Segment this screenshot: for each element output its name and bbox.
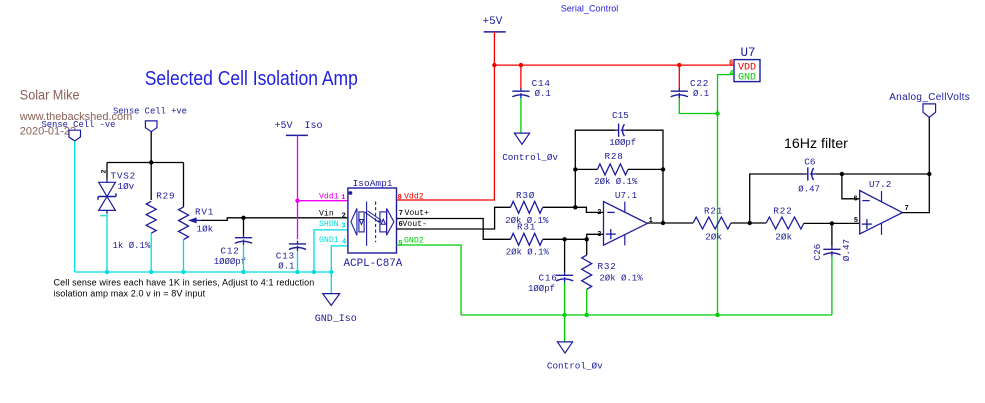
resistor R22 bbox=[766, 206, 804, 243]
svg-text:Ø.1: Ø.1 bbox=[693, 89, 709, 99]
svg-text:7: 7 bbox=[399, 210, 403, 218]
node junction C16 bbox=[562, 237, 566, 241]
svg-text:C14: C14 bbox=[532, 78, 551, 89]
node junction C6/pin6 bbox=[840, 172, 844, 176]
pin label Vdd2 bbox=[398, 192, 424, 203]
svg-text:3: 3 bbox=[341, 222, 345, 230]
port Analog_CellVolts bbox=[889, 92, 970, 117]
wire C12 stub bbox=[243, 218, 245, 235]
wire C26 bottom bbox=[831, 257, 833, 316]
wire C6 left bbox=[750, 174, 805, 223]
resistor R30 bbox=[505, 190, 549, 226]
svg-text:1ØØpf: 1ØØpf bbox=[609, 138, 636, 148]
wire Vout- to R30 bbox=[397, 207, 511, 229]
wire C12 bottom bbox=[243, 245, 245, 272]
svg-text:Ø.1: Ø.1 bbox=[278, 261, 294, 271]
svg-text:C12: C12 bbox=[221, 246, 240, 257]
node junction C12/Vin bbox=[241, 216, 245, 220]
svg-text:4: 4 bbox=[729, 70, 733, 78]
wire R21-R22 bbox=[731, 222, 766, 224]
wire R29 stub bbox=[150, 163, 152, 201]
wire RV1 bottom bbox=[183, 240, 185, 273]
pin label Vout- bbox=[399, 220, 427, 229]
svg-text:6: 6 bbox=[853, 196, 857, 204]
svg-text:1k Ø.1%: 1k Ø.1% bbox=[113, 241, 151, 251]
pin number U7.2-6 bbox=[853, 196, 857, 204]
svg-text:GND: GND bbox=[738, 73, 756, 84]
svg-text:R3Ø: R3Ø bbox=[516, 190, 535, 201]
pin number U7.1-2 bbox=[597, 209, 601, 217]
wire Sense_Cell_+ve drop bbox=[150, 132, 152, 163]
wire top horizontal bbox=[107, 162, 184, 164]
svg-text:GND_Iso: GND_Iso bbox=[315, 314, 357, 325]
capacitor C15 bbox=[609, 110, 636, 148]
node junction U7gnd/C22 bbox=[715, 111, 719, 115]
svg-text:C26: C26 bbox=[812, 244, 823, 261]
svg-text:Control_Øv: Control_Øv bbox=[502, 152, 558, 163]
node junction pin2 bbox=[573, 205, 577, 209]
node junction out1 bbox=[661, 221, 665, 225]
pin number U7.2-5 bbox=[854, 217, 858, 225]
wire C22 stub bbox=[678, 65, 680, 88]
svg-text:C22: C22 bbox=[690, 78, 709, 89]
svg-text:Vout-: Vout- bbox=[402, 220, 427, 229]
svg-text:C13: C13 bbox=[276, 251, 295, 262]
svg-text:Ø.47: Ø.47 bbox=[798, 185, 820, 195]
svg-text:+5V: +5V bbox=[483, 16, 503, 28]
svg-text:1ØØØpf: 1ØØØpf bbox=[214, 257, 246, 267]
svg-text:2: 2 bbox=[101, 170, 108, 174]
node bus junctions bbox=[105, 270, 334, 274]
svg-text:2Øk Ø.1%: 2Øk Ø.1% bbox=[506, 248, 550, 258]
svg-text:Solar Mike: Solar Mike bbox=[20, 87, 80, 102]
16Hz filter text bbox=[784, 136, 848, 152]
power part U7 bbox=[729, 46, 760, 84]
wire C13 bottom bbox=[297, 251, 299, 272]
capacitor C14 bbox=[512, 78, 551, 99]
wire R22 to pin5 bbox=[804, 222, 860, 224]
date text bbox=[20, 125, 76, 137]
svg-text:R31: R31 bbox=[517, 222, 536, 233]
svg-text:Selected Cell Isolation Amp: Selected Cell Isolation Amp bbox=[145, 68, 358, 90]
wire Analog_CellVolts drop bbox=[928, 117, 930, 174]
resistor R29 bbox=[113, 190, 176, 251]
svg-text:Ø.1: Ø.1 bbox=[535, 89, 551, 99]
svg-text:U7.2: U7.2 bbox=[869, 179, 891, 190]
wire C26 stub bbox=[831, 223, 833, 246]
svg-text:3: 3 bbox=[597, 231, 601, 239]
wire R28 right bbox=[628, 168, 663, 170]
svg-text:C15: C15 bbox=[612, 110, 629, 121]
resistor R31 bbox=[506, 222, 550, 258]
wire Vdd2 bbox=[397, 65, 495, 200]
node junction R28 left bbox=[573, 167, 577, 171]
pin label Vdd1 bbox=[319, 191, 346, 202]
svg-text:Control_Øv: Control_Øv bbox=[547, 361, 603, 372]
svg-text:Vdd1: Vdd1 bbox=[319, 191, 339, 201]
svg-text:2Øk Ø.1%: 2Øk Ø.1% bbox=[599, 273, 643, 283]
svg-text:IsoAmp1: IsoAmp1 bbox=[353, 178, 393, 189]
svg-text:5: 5 bbox=[854, 217, 858, 225]
wire C14 stub bbox=[520, 65, 522, 88]
svg-text:R21: R21 bbox=[704, 206, 723, 217]
wire Control_0v drop bbox=[564, 315, 566, 342]
svg-text:Ø.47: Ø.47 bbox=[841, 239, 852, 261]
svg-text:SHDN: SHDN bbox=[319, 220, 339, 229]
node junction R28 right bbox=[661, 167, 665, 171]
capacitor C16 bbox=[528, 272, 573, 294]
svg-text:Sense Cell -ve: Sense Cell -ve bbox=[42, 120, 116, 130]
wire C16 bottom bbox=[564, 283, 566, 316]
wire Vin bbox=[201, 218, 348, 221]
wire control ground vertical bbox=[717, 114, 719, 316]
resistor R21 bbox=[693, 206, 731, 243]
port Sense_Cell_+ve bbox=[113, 107, 187, 132]
svg-text:2: 2 bbox=[342, 213, 346, 221]
wire to pin6 bbox=[842, 174, 860, 199]
node green bus junctions bbox=[562, 313, 719, 317]
svg-text:+5V Iso: +5V Iso bbox=[275, 121, 323, 132]
wire U7 GND bbox=[718, 75, 735, 114]
svg-text:U7.1: U7.1 bbox=[615, 190, 638, 201]
svg-text:Vout+: Vout+ bbox=[405, 209, 430, 218]
wire R29 bottom bbox=[150, 233, 152, 272]
svg-text:1: 1 bbox=[341, 194, 345, 202]
pin label SHDN bbox=[319, 220, 346, 231]
wire U7.1 out bbox=[647, 222, 693, 224]
wire R32 stub bbox=[586, 239, 588, 255]
pin label Vin bbox=[319, 208, 346, 220]
node junction Vdd1 bbox=[295, 199, 299, 203]
pin number U7.1-1 bbox=[649, 217, 653, 225]
svg-text:U7: U7 bbox=[741, 46, 756, 60]
svg-text:R29: R29 bbox=[156, 190, 175, 201]
wire GND_Iso bus bbox=[75, 271, 332, 273]
wire SHDN bbox=[314, 230, 348, 272]
note text bbox=[54, 278, 315, 299]
wire TVS2 bottom bbox=[100, 214, 107, 273]
wire feedback left vertical bbox=[574, 169, 576, 207]
svg-text:GND2: GND2 bbox=[404, 237, 424, 246]
capacitor C6 bbox=[798, 156, 820, 194]
ground GND_Iso bbox=[315, 294, 357, 325]
capacitor C22 bbox=[671, 78, 710, 99]
capacitor C13 bbox=[276, 241, 306, 272]
svg-text:Sense Cell +ve: Sense Cell +ve bbox=[113, 107, 187, 117]
svg-text:1Øk: 1Øk bbox=[197, 223, 214, 234]
wire U7.2 out bbox=[902, 174, 929, 213]
svg-text:6: 6 bbox=[399, 221, 403, 229]
wire TVS2 stub bbox=[106, 163, 108, 179]
node junction +ve/R29 bbox=[149, 160, 153, 164]
wire R31 to pin3 bbox=[543, 234, 604, 239]
pin label Vout+ bbox=[399, 209, 429, 218]
svg-text:Serial_Control: Serial_Control bbox=[561, 4, 619, 14]
wire C15 left bbox=[575, 130, 615, 169]
wire RV1 stub bbox=[183, 163, 185, 208]
wire GND1 bbox=[331, 246, 348, 294]
svg-text:ACPL-C87A: ACPL-C87A bbox=[344, 258, 403, 270]
svg-text:1Øv: 1Øv bbox=[118, 181, 135, 192]
pin label GND1 bbox=[319, 236, 346, 247]
svg-text:1ØØpf: 1ØØpf bbox=[528, 284, 555, 294]
wire C14 green bbox=[520, 98, 522, 133]
svg-text:RV1: RV1 bbox=[195, 206, 214, 217]
title text bbox=[145, 68, 358, 90]
wire C16 stub bbox=[564, 239, 566, 272]
wire +5V drop bbox=[493, 32, 495, 65]
pin label GND2 bbox=[398, 237, 424, 248]
svg-text:Cell sense wires each have 1K: Cell sense wires each have 1K in series,… bbox=[54, 278, 315, 288]
op-amp U7.2 bbox=[860, 179, 903, 235]
svg-text:2Øk: 2Øk bbox=[705, 231, 722, 242]
potentiometer RV1 bbox=[179, 206, 215, 239]
svg-text:8: 8 bbox=[729, 60, 733, 68]
sheet label Serial_Control bbox=[561, 4, 619, 14]
svg-text:Analog_CellVolts: Analog_CellVolts bbox=[889, 92, 970, 103]
resistor R32 bbox=[582, 255, 644, 289]
wire C22 green bbox=[679, 98, 717, 113]
wire +5V_Iso vertical bbox=[297, 135, 299, 200]
svg-text:8: 8 bbox=[398, 194, 402, 202]
svg-text:1: 1 bbox=[649, 217, 653, 225]
node junction out2 bbox=[927, 172, 931, 176]
wire C15 right bbox=[626, 130, 663, 169]
wire Vout+ to R31 bbox=[397, 219, 511, 240]
svg-text:R32: R32 bbox=[598, 261, 617, 272]
svg-text:C16: C16 bbox=[539, 272, 558, 283]
wire C6 right bbox=[815, 173, 929, 175]
wire R28 left bbox=[575, 168, 597, 170]
wire R32 bottom bbox=[586, 289, 588, 315]
svg-text:TVS2: TVS2 bbox=[111, 170, 137, 181]
resistor R28 bbox=[594, 151, 638, 187]
wire +5V rail bbox=[494, 64, 734, 66]
website text bbox=[19, 111, 133, 123]
pin number U7.1-3 bbox=[597, 231, 601, 239]
svg-text:2Øk: 2Øk bbox=[775, 231, 792, 242]
node rail junctions bbox=[492, 63, 681, 67]
node junction R21/R22/C6 bbox=[748, 221, 752, 225]
node junction R32 bbox=[585, 237, 589, 241]
svg-text:R22: R22 bbox=[773, 206, 792, 217]
node junction C26 bbox=[830, 221, 834, 225]
capacitor C26 bbox=[812, 239, 852, 261]
svg-text:GND1: GND1 bbox=[319, 236, 339, 245]
author text Solar Mike bbox=[20, 87, 80, 102]
svg-text:4: 4 bbox=[342, 239, 346, 247]
op-amp IsoAmp1 box bbox=[344, 178, 403, 270]
svg-text:Vin: Vin bbox=[319, 208, 334, 218]
wire GND2 bbox=[397, 245, 462, 315]
svg-text:C6: C6 bbox=[804, 156, 815, 167]
wire Vdd1 bbox=[298, 200, 348, 202]
wire R30 to pin2 bbox=[543, 207, 604, 212]
wire C13 stub bbox=[297, 201, 299, 240]
svg-text:7: 7 bbox=[905, 205, 909, 213]
svg-text:isolation amp max 2.0 v in = 8: isolation amp max 2.0 v in = 8V input bbox=[54, 288, 206, 298]
power +5V_Iso bbox=[275, 121, 323, 136]
svg-text:2Øk Ø.1%: 2Øk Ø.1% bbox=[594, 177, 638, 187]
svg-text:5: 5 bbox=[398, 240, 402, 248]
svg-text:R28: R28 bbox=[605, 151, 624, 162]
TVS diode TVS2 bbox=[98, 170, 136, 214]
power +5V bbox=[483, 16, 506, 32]
ground Control_0v lower bbox=[547, 342, 603, 372]
svg-text:16Hz filter: 16Hz filter bbox=[784, 136, 848, 152]
svg-text:2: 2 bbox=[597, 209, 601, 217]
ground Control_0v upper bbox=[502, 133, 558, 163]
port Sense_Cell_-ve bbox=[42, 120, 116, 141]
op-amp U7.1 bbox=[604, 190, 648, 245]
wire feedback right vertical bbox=[662, 169, 664, 223]
wire control ground bus bbox=[461, 314, 832, 316]
capacitor C12 bbox=[214, 235, 252, 268]
wire Sense_Cell_-ve drop bbox=[74, 141, 76, 272]
pin number U7.2-7 bbox=[905, 205, 909, 213]
